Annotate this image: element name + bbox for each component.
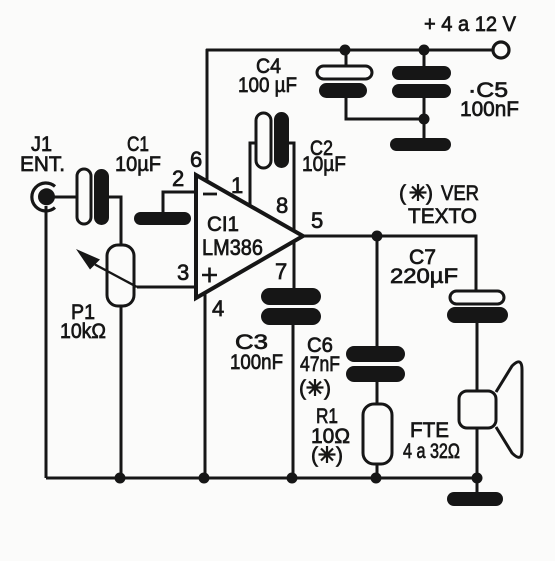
resistor R1 (363, 404, 392, 464)
label FTE (403, 419, 460, 463)
ground bar pin 2 (134, 212, 191, 225)
capacitor C4 (317, 66, 372, 98)
svg-text:FTE: FTE (410, 419, 449, 442)
svg-text:100nF: 100nF (230, 351, 283, 374)
node C4 top junction (340, 45, 351, 56)
svg-text:4 a 32Ω: 4 a 32Ω (403, 440, 460, 463)
speaker FTE (459, 362, 522, 458)
pin label 8 (276, 193, 288, 218)
svg-text:CI1: CI1 (207, 213, 239, 236)
wire C1 to P1 top (109, 197, 121, 245)
svg-text:10µF: 10µF (115, 153, 161, 176)
node P1 ground junction (115, 473, 126, 484)
wire pin 2 to ground bar (163, 192, 196, 214)
wire pin 4 to ground rail (204, 293, 207, 478)
svg-text:(: ( (311, 444, 318, 467)
wire pin 5 output (303, 236, 476, 291)
svg-text:100nF: 100nF (460, 98, 519, 121)
label C4 (238, 55, 297, 97)
label C1 (115, 133, 161, 176)
svg-text:6: 6 (190, 147, 202, 172)
node speaker ground junction (472, 473, 483, 484)
svg-text:): ) (336, 444, 343, 467)
wiper arrow P1 (76, 249, 137, 287)
label C6 (299, 334, 340, 400)
wire bottom ground rail (46, 477, 477, 480)
op-amp U1 CI1 LM386 (196, 175, 303, 298)
label P1 (60, 301, 106, 343)
wire J1 to C1 (54, 196, 78, 199)
svg-text:+ 4 a 12 V: + 4 a 12 V (424, 13, 516, 36)
wire P1 wiper to pin 3 (137, 286, 196, 289)
svg-text:): ) (426, 182, 433, 205)
label +4 a 12V (424, 13, 516, 36)
svg-text:220µF: 220µF (390, 265, 458, 288)
capacitor C3 (261, 288, 321, 325)
label J1 ENT (20, 133, 65, 176)
svg-text:ENT.: ENT. (20, 153, 65, 176)
svg-text:VER: VER (441, 182, 479, 205)
wire C2 to pin 8 (289, 143, 294, 231)
wire R1 to ground rail (376, 464, 379, 478)
svg-text:(: ( (299, 377, 306, 400)
svg-text:8: 8 (276, 193, 288, 218)
wire J1 to ground rail (45, 206, 48, 478)
wire P1 bottom to ground rail (120, 306, 123, 478)
wire C4 bottom to C5 junction (346, 98, 424, 119)
wire pin 7 to C3 (293, 241, 296, 288)
ground bar bottom right (447, 492, 503, 506)
node pin 4 ground junction (199, 473, 210, 484)
label VER TEXTO note (399, 182, 479, 228)
label C5 (460, 79, 519, 121)
svg-text:3: 3 (177, 260, 189, 285)
pin label 3 (177, 260, 189, 285)
pin label 4 (212, 296, 224, 321)
svg-text:4: 4 (212, 296, 224, 321)
capacitor C5 (392, 66, 451, 98)
wire speaker to ground rail (476, 428, 479, 492)
wire pin 6 to supply rail (206, 50, 209, 181)
node output junction (372, 231, 383, 242)
wire C5 top stub (423, 50, 426, 66)
node C4 C5 junction (419, 114, 430, 125)
capacitor C2 (256, 112, 289, 168)
capacitor C1 (77, 169, 109, 225)
svg-text:TEXTO: TEXTO (408, 205, 477, 228)
pin label 1 (231, 173, 243, 198)
pin label 2 (172, 166, 184, 191)
label CI1 LM386 (202, 213, 263, 260)
capacitor C7 (447, 291, 508, 323)
label R1 (311, 405, 350, 467)
svg-text:100 µF: 100 µF (238, 74, 297, 97)
wire C5 bottom stub (423, 98, 426, 138)
wire top supply rail (207, 49, 492, 52)
svg-text:1: 1 (231, 173, 243, 198)
svg-text:2: 2 (172, 166, 184, 191)
label C7 (390, 246, 458, 288)
svg-text:10µF: 10µF (302, 153, 346, 176)
label C2 (302, 137, 346, 176)
capacitor C6 (346, 346, 405, 382)
svg-text:47nF: 47nF (300, 353, 340, 376)
svg-text:10kΩ: 10kΩ (60, 320, 106, 343)
wire C4 top stub (345, 50, 348, 66)
svg-text:5: 5 (311, 208, 323, 233)
pin label 6 (190, 147, 202, 172)
svg-text:LM386: LM386 (202, 235, 263, 260)
potentiometer P1 (107, 245, 134, 306)
jack J1 (32, 183, 55, 211)
label C3 (230, 331, 283, 374)
wire C3 to ground rail (292, 325, 295, 478)
node C5 top junction (419, 45, 430, 56)
node R1 ground junction (371, 473, 382, 484)
pin label 7 (275, 259, 287, 284)
terminal +4 a 12V (493, 42, 509, 58)
wire pin 1 to C2 (250, 143, 257, 206)
svg-text:): ) (324, 377, 331, 400)
svg-text:7: 7 (275, 259, 287, 284)
ground bar under C5 (390, 138, 451, 151)
node C3 ground junction (287, 473, 298, 484)
svg-text:(: ( (399, 182, 406, 205)
wire output junction to C6 (376, 236, 379, 346)
wire C6 to R1 (376, 382, 379, 404)
wire C7 to speaker (476, 323, 479, 391)
pin label 5 (311, 208, 323, 233)
